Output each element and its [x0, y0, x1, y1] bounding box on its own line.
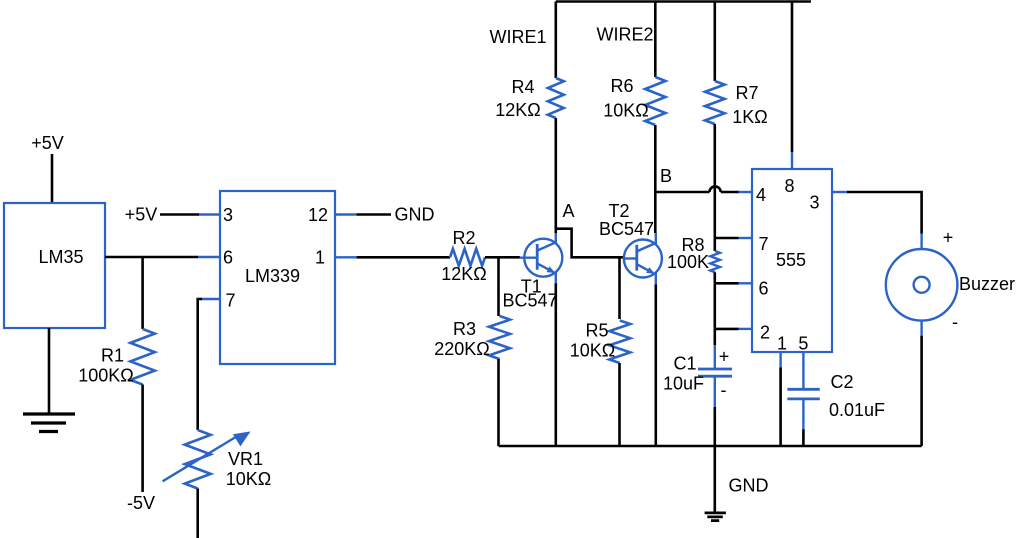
wire hop over R7 line	[710, 186, 721, 192]
value 10K&#937; (VR1)	[226, 469, 271, 489]
svg-text:T2: T2	[608, 201, 629, 221]
wire blue stub T1 collector	[555, 233, 557, 244]
wire LM339 pin 12 to GND label	[357, 213, 391, 216]
wire blue stub buzzer +	[920, 234, 922, 250]
svg-text:5: 5	[798, 333, 808, 353]
IC LM339 body	[220, 191, 335, 364]
svg-text:+: +	[943, 228, 954, 248]
svg-text:4: 4	[756, 185, 766, 205]
svg-text:555: 555	[776, 250, 806, 270]
svg-text:R1: R1	[101, 346, 124, 366]
svg-text:12: 12	[308, 205, 328, 225]
pin number 1 (LM339)	[315, 248, 325, 268]
pin number 1 (555)	[777, 333, 787, 353]
wire R3 bottom to ground rail	[497, 359, 500, 446]
polarity + (buzzer)	[943, 228, 954, 248]
wire T2 emitter to ground rail	[654, 285, 657, 447]
wire hop to 555 pin 4	[721, 191, 739, 194]
value 10uF (C1)	[663, 374, 704, 394]
wire 555 pin 1 to ground rail	[779, 368, 782, 447]
label VR1	[228, 449, 263, 469]
buzzer body	[886, 249, 958, 321]
label R1	[101, 346, 124, 366]
svg-text:7: 7	[758, 234, 768, 254]
wire blue stub 555 pin 3	[832, 191, 847, 193]
svg-text:1KΩ: 1KΩ	[732, 107, 767, 127]
wire R1 top (junction to R1)	[141, 257, 144, 329]
wire blue stub 555 pin 2	[739, 328, 753, 330]
wire C1 to ground rail	[713, 407, 716, 446]
svg-text:B: B	[660, 166, 672, 186]
transistor T1 (BC547)	[520, 239, 563, 277]
label R4	[511, 77, 534, 97]
pin number 3 (LM339)	[223, 205, 233, 225]
value 100K (R8)	[667, 252, 709, 272]
wire blue stub LM339 pin 12	[335, 213, 357, 215]
wire blue stub buzzer -	[920, 321, 922, 336]
transistor T2 (BC547)	[624, 240, 662, 278]
wire node B to hop	[655, 191, 709, 194]
wire blue stub 555 pin 1	[779, 352, 781, 368]
resistor R5	[609, 321, 630, 364]
net label WIRE2	[596, 25, 653, 45]
svg-text:100K: 100K	[667, 252, 709, 272]
wire rail to R4	[554, 2, 557, 79]
label 555	[776, 250, 806, 270]
svg-text:6: 6	[758, 279, 768, 299]
wire R1 bottom to -5V	[141, 385, 144, 493]
value 10K&#937; (R6)	[603, 101, 648, 121]
wire R5 bottom to ground rail	[618, 363, 621, 446]
wire R5 top (junction on T2 base wire)	[618, 257, 621, 319]
wire blue stub 555 pin 4	[739, 191, 753, 193]
svg-text:+5V: +5V	[31, 133, 64, 153]
label LM339	[245, 266, 300, 286]
wire LM339 pin 7 to VR1	[198, 299, 202, 430]
label C1	[673, 354, 696, 374]
variable resistor VR1 arrow	[163, 431, 251, 481]
pin number 6 (555)	[758, 279, 768, 299]
svg-text:10uF: 10uF	[663, 374, 704, 394]
wire buzzer to ground rail	[920, 336, 923, 446]
label T1	[521, 277, 542, 297]
label LM35	[38, 247, 83, 267]
wire R3 top (junction on T1 base wire)	[497, 257, 500, 316]
wire blue stub 555 pin 5	[802, 352, 804, 389]
svg-text:R4: R4	[511, 77, 534, 97]
wire blue stub LM339 pin 7	[201, 298, 220, 300]
pin number 7 (LM339)	[225, 291, 235, 311]
label R2	[452, 228, 475, 248]
wire 555 pin 6 tap	[715, 282, 739, 285]
svg-text:12KΩ: 12KΩ	[441, 264, 486, 284]
pin number 7 (555)	[758, 234, 768, 254]
wire blue stub 555 pin 8	[791, 152, 793, 169]
wire blue stub LM339 pin 6	[198, 256, 220, 258]
wire R6 to node B / T2 collector	[654, 125, 657, 233]
svg-text:1: 1	[777, 333, 787, 353]
net label GND (bottom)	[729, 476, 769, 496]
svg-text:R5: R5	[585, 321, 608, 341]
resistor R2	[450, 249, 485, 266]
capacitor C1 (polarized)	[698, 369, 732, 376]
label R7	[735, 83, 758, 103]
wire blue stub LM339 pin 1	[335, 256, 357, 258]
resistor R4	[548, 78, 564, 118]
svg-text:10KΩ: 10KΩ	[603, 101, 648, 121]
wire R2 to T1 base	[485, 256, 520, 259]
svg-text:100KΩ: 100KΩ	[78, 366, 134, 386]
svg-text:VR1: VR1	[228, 449, 263, 469]
pin number 6 (LM339)	[223, 248, 233, 268]
resistor R7	[705, 81, 725, 124]
wire bottom ground rail	[499, 445, 922, 448]
value 0.01uF (C2)	[829, 400, 885, 420]
pin number 4 (555)	[756, 185, 766, 205]
wire pin2 junction to C1	[713, 329, 716, 345]
variable resistor VR1 zigzag	[185, 430, 211, 489]
net label GND (LM339 pin 12)	[395, 205, 435, 225]
label Buzzer	[959, 274, 1015, 294]
pin number 8 (555)	[784, 176, 794, 196]
ground symbol (LM35)	[23, 414, 75, 432]
wire blue stub LM339 pin 3	[199, 213, 220, 215]
wire blue stub T2 emitter	[655, 273, 657, 285]
wire C2 to ground rail	[802, 429, 805, 446]
svg-text:+: +	[719, 346, 730, 366]
svg-text:12KΩ: 12KΩ	[495, 100, 540, 120]
wire blue stub T1 emitter	[555, 272, 557, 284]
resistor R1	[130, 329, 154, 385]
wire node A to T2 base	[556, 229, 624, 258]
wire ground rail to GND symbol	[713, 446, 716, 513]
svg-text:C2: C2	[830, 372, 853, 392]
svg-text:BC547: BC547	[502, 291, 557, 311]
wire T1 emitter to ground rail	[554, 283, 557, 446]
net label WIRE1	[489, 27, 546, 47]
pin number 12 (LM339)	[308, 205, 328, 225]
wire blue C1 bottom lead	[714, 376, 716, 407]
value 12K&#937; (R4)	[495, 100, 540, 120]
ground symbol (bottom GND)	[705, 513, 726, 521]
wire 555 pin 2 tap	[715, 328, 739, 331]
svg-text:10KΩ: 10KΩ	[226, 469, 271, 489]
wire pin7 junction to R8	[713, 238, 716, 251]
wire blue stub 555 pin 7	[739, 237, 753, 239]
wire blue C2 bottom lead	[802, 399, 804, 429]
wire 555 pin 3 to buzzer	[847, 192, 922, 234]
net label +5V (LM35 supply)	[31, 133, 64, 153]
svg-text:-5V: -5V	[127, 493, 155, 513]
svg-text:-: -	[952, 312, 958, 332]
svg-text:2: 2	[760, 322, 770, 342]
svg-text:Buzzer: Buzzer	[959, 274, 1015, 294]
svg-text:R7: R7	[735, 83, 758, 103]
wire blue stub 555 pin 6	[739, 282, 753, 284]
label C2	[830, 372, 853, 392]
svg-text:6: 6	[223, 248, 233, 268]
wire LM35 pin out to LM339 pin 6	[105, 256, 198, 259]
label R3	[453, 319, 476, 339]
svg-text:GND: GND	[395, 205, 435, 225]
label R5	[585, 321, 608, 341]
wire R4 to node A / T1 collector	[554, 118, 557, 233]
capacitor C2	[787, 389, 819, 399]
svg-text:+5V: +5V	[125, 205, 158, 225]
wire rail to R7	[713, 2, 716, 82]
wire blue stub T2 collector	[655, 233, 657, 244]
svg-text:C1: C1	[673, 354, 696, 374]
wire +5V to LM339 pin 3	[160, 213, 199, 216]
svg-text:R3: R3	[453, 319, 476, 339]
wire +5V to LM35 top	[51, 154, 54, 203]
svg-text:R2: R2	[452, 228, 475, 248]
wire blue C1 top lead	[714, 345, 716, 369]
node label A	[562, 201, 574, 221]
wire LM35 bottom to ground	[48, 328, 51, 414]
svg-text:-: -	[721, 380, 727, 400]
svg-text:8: 8	[784, 176, 794, 196]
polarity - (C1)	[721, 380, 727, 400]
value 100K&#937; (R1)	[78, 366, 134, 386]
value 220K&#937; (R3)	[434, 339, 490, 359]
label R6	[610, 76, 633, 96]
pin number 2 (555)	[760, 322, 770, 342]
value 1K&#937; (R7)	[732, 107, 767, 127]
svg-text:R6: R6	[610, 76, 633, 96]
svg-text:LM339: LM339	[245, 266, 300, 286]
wire top power rail	[556, 0, 811, 3]
wire pin6 junction to pin2 junction	[713, 283, 716, 329]
svg-text:10KΩ: 10KΩ	[570, 341, 615, 361]
value 12K&#937; (R2)	[441, 264, 486, 284]
svg-text:LM35: LM35	[38, 247, 83, 267]
svg-text:1: 1	[315, 248, 325, 268]
svg-text:7: 7	[225, 291, 235, 311]
value BC547 (T1)	[502, 291, 557, 311]
svg-text:BC547: BC547	[599, 219, 654, 239]
node label B	[660, 166, 672, 186]
IC LM35 body	[4, 203, 105, 328]
svg-text:A: A	[562, 201, 574, 221]
net label -5V	[127, 493, 155, 513]
net label +5V (LM339 pin 3)	[125, 205, 158, 225]
svg-text:GND: GND	[729, 476, 769, 496]
wire R7 bottom to pin7 junction	[713, 124, 716, 238]
svg-text:0.01uF: 0.01uF	[829, 400, 885, 420]
wire VR1 bottom	[196, 489, 199, 538]
pin number 5 (555)	[798, 333, 808, 353]
wire LM339 pin 1 to R2	[357, 256, 450, 259]
svg-text:WIRE2: WIRE2	[596, 25, 653, 45]
wire 555 pin 7 tap	[715, 237, 739, 240]
wire R8 bottom to pin6 junction	[713, 272, 716, 283]
value BC547 (T2)	[599, 219, 654, 239]
resistor R6	[645, 77, 665, 125]
resistor R3	[489, 316, 510, 359]
pin number 3 (555)	[809, 193, 819, 213]
label R8	[681, 235, 704, 255]
svg-text:220KΩ: 220KΩ	[434, 339, 490, 359]
polarity - (buzzer)	[952, 312, 958, 332]
svg-text:3: 3	[809, 193, 819, 213]
value 10K&#937; (R5)	[570, 341, 615, 361]
resistor R8	[710, 251, 720, 272]
svg-text:3: 3	[223, 205, 233, 225]
wire 555 pin 8 to top rail	[791, 2, 794, 153]
IC 555 body	[752, 169, 832, 352]
svg-text:WIRE1: WIRE1	[489, 27, 546, 47]
label T2	[608, 201, 629, 221]
polarity + (C1)	[719, 346, 730, 366]
wire rail to R6	[654, 2, 657, 78]
